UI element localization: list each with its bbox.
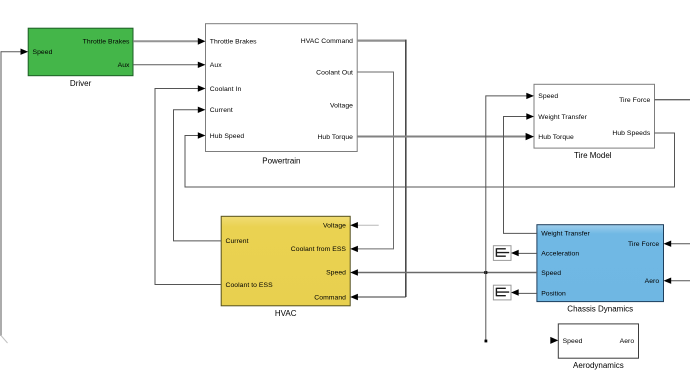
svg-text:Hub Speed: Hub Speed: [210, 133, 245, 140]
svg-text:Hub Torque: Hub Torque: [538, 134, 574, 141]
svg-text:Position: Position: [541, 291, 566, 298]
svg-text:Weight Transfer: Weight Transfer: [541, 231, 590, 238]
svg-text:Coolant to ESS: Coolant to ESS: [226, 282, 274, 289]
block Driver: [28, 28, 133, 88]
block Aerodynamics: [558, 324, 638, 370]
svg-text:Hub Torque: Hub Torque: [317, 134, 353, 141]
block HVAC: [221, 216, 350, 318]
wire Current: HVAC to Powertrain Current: [174, 107, 222, 241]
svg-text:HVAC: HVAC: [275, 309, 297, 318]
svg-text:Coolant Out: Coolant Out: [316, 69, 353, 76]
svg-text:Throttle Brakes: Throttle Brakes: [83, 39, 130, 46]
node speed junction: [484, 271, 487, 274]
wire Tire Force into Chassis (from right edge): [664, 241, 690, 247]
svg-text:Hub Speeds: Hub Speeds: [612, 130, 650, 137]
wire Weight Transfer: Chassis to Tire Model: [504, 113, 537, 233]
wire Position: Chassis to scope S2: [511, 289, 537, 295]
block Tire Model: [534, 84, 655, 160]
scope block S2 (Position): [493, 285, 511, 300]
svg-text:Coolant from ESS: Coolant from ESS: [291, 246, 347, 253]
svg-text:Aero: Aero: [645, 278, 660, 285]
wire Coolant Out: Powertrain to HVAC Coolant from ESS: [350, 72, 393, 252]
arrowhead into Aerodynamics Speed (dangling): [550, 337, 558, 344]
svg-text:Chassis Dynamics: Chassis Dynamics: [567, 305, 633, 314]
svg-text:Speed: Speed: [563, 338, 583, 345]
wire Speed feedback into Driver (left edge): [1, 49, 28, 344]
wire Speed branch down (dangling end): [485, 273, 488, 343]
svg-text:Weight Transfer: Weight Transfer: [538, 114, 587, 121]
svg-text:Command: Command: [314, 295, 346, 302]
wire Aero into Chassis (from right edge): [664, 278, 690, 284]
wire Aux: Driver to Powertrain: [133, 62, 205, 68]
scope block S1 (Acceleration): [493, 246, 511, 261]
svg-text:Tire Force: Tire Force: [628, 241, 659, 248]
wire Hub Torque: Powertrain to Tire Model (thick): [357, 133, 534, 140]
svg-text:HVAC Command: HVAC Command: [301, 38, 353, 45]
svg-text:Aero: Aero: [620, 338, 635, 345]
svg-text:Voltage: Voltage: [323, 223, 346, 230]
svg-text:Coolant In: Coolant In: [210, 86, 242, 93]
svg-text:Aerodynamics: Aerodynamics: [573, 361, 624, 370]
wire Coolant to ESS: HVAC to Powertrain Coolant In: [155, 85, 221, 284]
svg-text:Tire Model: Tire Model: [574, 151, 612, 160]
wire Hub Speeds feedback: Tire Model to Powertrain Hub Speed: [185, 132, 675, 187]
svg-text:Aux: Aux: [118, 62, 130, 69]
svg-text:Powertrain: Powertrain: [262, 157, 300, 166]
block Powertrain: [206, 24, 358, 166]
svg-text:Speed: Speed: [33, 49, 53, 56]
svg-text:Throttle Brakes: Throttle Brakes: [210, 39, 257, 46]
svg-text:Speed: Speed: [541, 270, 561, 277]
block Chassis Dynamics: [537, 225, 664, 314]
wire Acceleration: Chassis to scope S1: [511, 250, 537, 256]
svg-text:Current: Current: [210, 107, 233, 114]
wire HVAC Command: Powertrain to HVAC Command (thick right, down, left): [350, 40, 406, 301]
svg-text:Current: Current: [226, 238, 249, 245]
svg-text:Driver: Driver: [70, 79, 92, 88]
svg-text:Speed: Speed: [326, 270, 346, 277]
svg-text:Aux: Aux: [210, 62, 222, 69]
svg-text:Acceleration: Acceleration: [541, 251, 579, 258]
svg-text:Voltage: Voltage: [330, 103, 353, 110]
wire Speed: Chassis to HVAC Speed (horizontal): [350, 269, 537, 275]
wire Speed branch up to Tire Model Speed: [486, 93, 534, 273]
svg-text:Tire Force: Tire Force: [619, 97, 650, 104]
wire Voltage stub into HVAC: [350, 222, 379, 228]
wire Throttle Brakes: Driver to Powertrain (thick): [133, 38, 205, 45]
wire Tire Force: Tire Model output to right edge: [655, 99, 690, 101]
svg-text:Speed: Speed: [538, 93, 558, 100]
